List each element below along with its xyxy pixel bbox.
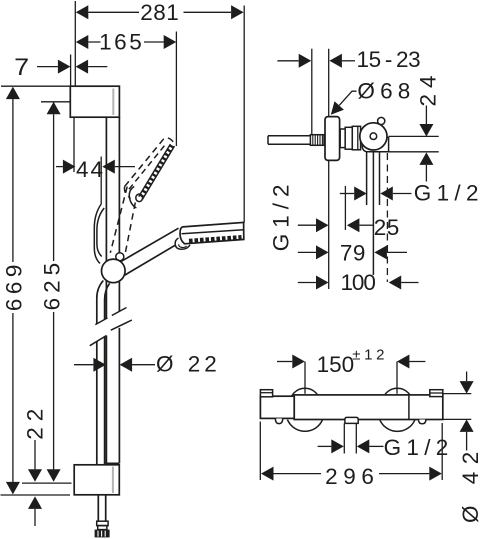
dimension 165 right arrow — [164, 35, 177, 49]
dimension 44 right arrow — [102, 160, 115, 174]
wall arrow row 25 — [298, 224, 316, 226]
upper position hose left edge — [94, 204, 101, 264]
hose conical nut — [95, 530, 110, 538]
dimension 625 bottom arrow — [47, 469, 61, 482]
dimension Ø42 line lower — [466, 432, 468, 451]
dimension Ø42 up arrow — [460, 419, 474, 432]
rail bar right edge — [118, 117, 120, 463]
dimension 15-23 line left — [277, 60, 298, 62]
outlet left edge — [366, 152, 368, 205]
dimension 79 line — [387, 251, 407, 253]
dimension 7 line left — [37, 66, 58, 68]
svg-text:25: 25 — [374, 215, 400, 240]
dimension 625 top arrow — [47, 102, 61, 115]
bottom bracket step — [107, 463, 120, 465]
dimension 24 line upper — [425, 106, 427, 125]
dimension 44 line left — [56, 166, 63, 168]
hand shower head body — [180, 222, 244, 243]
slider ball joint nub — [116, 253, 124, 261]
extension line body right — [441, 423, 443, 480]
dimension 165 line — [88, 41, 164, 43]
dimension 281 line — [88, 11, 231, 13]
wall arrow row 79 — [298, 251, 316, 253]
dimension G1/2 bottom left arrow — [331, 439, 344, 453]
extension line y=86 top of bracket — [1, 85, 70, 87]
rail bar left edge — [105, 117, 107, 464]
Ø42 top ref line — [443, 393, 472, 395]
dimension 625 line — [53, 114, 55, 469]
dimension G1/2 outlet line left — [340, 193, 354, 195]
svg-text:625: 625 — [39, 258, 64, 311]
dimension 281 left arrow — [76, 5, 89, 19]
left boss bottom arc — [287, 420, 322, 432]
dimension 669 bottom arrow — [6, 482, 20, 495]
right handle joint line — [408, 395, 410, 420]
dimension 44 line right — [115, 166, 135, 168]
dimension 44 ext line x=101.2 — [100, 157, 102, 205]
left wall union — [260, 390, 272, 397]
dimension 150 line right — [409, 361, 425, 363]
svg-text:±12: ±12 — [352, 346, 388, 363]
supply pipe thread — [310, 135, 324, 146]
dimension 100 arrow — [389, 276, 402, 290]
wall bracket top shading — [112, 89, 114, 116]
hand shower handle — [122, 229, 182, 275]
Ø42 bottom ref line — [443, 418, 472, 420]
bottom bracket shading — [112, 467, 114, 494]
extension line x=345.4 — [344, 186, 346, 230]
wall line front x=328.7 — [328, 49, 330, 289]
wall bracket top — [70, 86, 119, 117]
extension line x=244.2 — [243, 6, 245, 223]
dimension 25 line — [359, 224, 373, 226]
dimension 7 left arrow — [58, 60, 71, 74]
valve bottom ref line y=151.8 — [389, 151, 439, 153]
svg-text:79: 79 — [340, 241, 366, 266]
dimension 100 line — [401, 282, 418, 284]
right boss top circle — [382, 388, 412, 418]
dimension 44 ext line x=74 — [73, 117, 75, 172]
left handle — [260, 396, 294, 418]
connector nut — [345, 127, 352, 149]
shower holder clamp outline — [129, 187, 136, 209]
valve lower body — [362, 135, 389, 152]
right boss bottom arc — [380, 420, 415, 432]
outlet center line — [372, 152, 374, 275]
dimension 669 line — [12, 99, 14, 482]
dimension 150 right arrow — [397, 355, 410, 369]
extension line x=176.4 — [175, 32, 177, 147]
extension dashed x=387.4 — [386, 153, 388, 282]
dimension 15-23 left arrow — [299, 54, 312, 68]
extension line wall x=75.3 — [74, 1, 76, 86]
svg-text:669: 669 — [1, 260, 26, 311]
thermostat body tube — [294, 395, 443, 420]
escutcheon Ø68 side profile — [325, 117, 340, 161]
svg-text:G1/2: G1/2 — [414, 181, 481, 206]
dimension 25 arrow — [347, 218, 360, 232]
hand shower lower-left button — [175, 238, 190, 249]
dimension 296 line right — [379, 473, 429, 475]
dimension G1/2 outlet right arrow — [380, 187, 393, 201]
wall line rear x=311.8 — [311, 49, 313, 136]
dimension 296 line left — [274, 473, 322, 475]
dimension 22 lower arrow — [28, 496, 42, 509]
hose upper curve — [97, 281, 110, 465]
dimension 22 line upper — [34, 440, 36, 469]
wall arrow row 100 — [298, 282, 316, 284]
svg-text:100: 100 — [341, 270, 376, 295]
extension line body left — [259, 422, 261, 481]
dashed hand shower spray face teeth — [140, 145, 172, 198]
svg-text:7: 7 — [14, 54, 29, 81]
hand shower head mid line — [182, 230, 244, 234]
outlet right edge — [379, 152, 381, 205]
dimension 24 up arrow — [419, 152, 433, 165]
hose below bracket — [98, 495, 105, 521]
extension line y=483 — [22, 482, 72, 484]
extension line y=101.8 (625 top ref) — [41, 101, 70, 103]
dimension Ø22 line left — [74, 364, 93, 366]
svg-text:G1/2: G1/2 — [269, 179, 294, 252]
svg-text:G1/2: G1/2 — [384, 435, 454, 460]
break mark upper slash — [95, 308, 126, 325]
hose outlet nub — [345, 417, 358, 423]
dimension 15-23 right arrow — [329, 54, 342, 68]
dimension 7 right arrow — [76, 60, 89, 74]
dimension 150 line left — [277, 361, 292, 363]
dimension 24 down arrow — [419, 124, 433, 137]
left boss top circle — [290, 388, 320, 418]
dimension Ø42 line upper — [466, 372, 468, 382]
dimension 15-23 line right — [342, 60, 355, 62]
hand shower button inner line — [179, 244, 187, 247]
Ø68 leader arrow — [331, 101, 344, 115]
dimension 79 arrow — [374, 245, 387, 259]
dashed hand shower face inner edge — [139, 144, 171, 197]
dimension Ø22 right arrow — [120, 358, 133, 372]
right drain bump — [419, 420, 426, 424]
supply pipe — [268, 136, 310, 145]
connector ring — [352, 126, 360, 150]
break mark lower slash — [90, 320, 132, 346]
hand shower spray face teeth — [189, 237, 242, 241]
hose collar mid — [98, 526, 107, 530]
dimension 165 left arrow — [76, 35, 89, 49]
dimension 44 left arrow — [63, 160, 76, 174]
dimension G1/2 bottom line right — [369, 445, 383, 447]
dashed hand shower head outline — [124, 138, 174, 199]
slider ball joint — [102, 259, 126, 283]
svg-text:Ø68: Ø68 — [357, 78, 415, 103]
valve center ref line y=136.4 — [389, 135, 439, 137]
svg-text:165: 165 — [99, 29, 144, 54]
dimension 150 left arrow — [292, 355, 305, 369]
dimension Ø22 line right — [132, 364, 155, 366]
svg-text:22: 22 — [22, 403, 47, 440]
G1/2 extension lines — [344, 423, 356, 453]
hand shower handle bottom edge — [125, 241, 182, 275]
extension line left boss center — [304, 362, 306, 394]
svg-text:150: 150 — [317, 352, 355, 377]
connector sleeve — [340, 129, 345, 148]
svg-text:15 - 23: 15 - 23 — [357, 47, 421, 72]
svg-text:24: 24 — [415, 69, 440, 106]
left drain bump — [275, 419, 282, 424]
dimension 669 top arrow — [6, 87, 20, 100]
dimension Ø22 left arrow — [93, 358, 106, 372]
dimension 24 line lower — [425, 165, 427, 182]
upper position hose right edge — [97, 208, 104, 257]
valve handle nub — [378, 117, 385, 124]
hose collar ring — [97, 521, 108, 525]
dashed hand shower face outer edge — [142, 146, 174, 199]
valve center screw — [370, 133, 377, 140]
right wall union — [430, 390, 443, 397]
dimension 296 left arrow — [261, 467, 274, 481]
dimension 296 right arrow — [429, 467, 442, 481]
dimension G1/2 outlet line right — [393, 193, 412, 195]
dimension G1/2 bottom line left — [318, 445, 332, 447]
shower holder clamp hole — [136, 194, 143, 202]
svg-text:Ø 22: Ø 22 — [156, 352, 221, 377]
svg-text:281: 281 — [140, 0, 179, 25]
dashed hand shower (upper position) handle — [110, 187, 135, 255]
Ø68 leader line — [339, 91, 356, 105]
dimension 22 upper arrow — [28, 469, 42, 482]
dashed hand shower head inner line — [129, 143, 166, 189]
dimension 281 right arrow — [231, 5, 244, 19]
hand shower handle top edge — [121, 228, 178, 261]
valve body circle — [360, 123, 387, 150]
extension line bracket-left x=70.6 — [70, 55, 72, 87]
dimension 7 line right — [88, 66, 107, 68]
dimension 22 line lower — [34, 509, 36, 526]
dimension G1/2 outlet left arrow — [354, 187, 367, 201]
bottom bracket — [74, 465, 119, 495]
svg-text:296: 296 — [325, 464, 379, 489]
extension line right boss center — [396, 362, 398, 394]
extension line y=495 bottom — [1, 494, 71, 496]
dimension G1/2 bottom right arrow — [357, 439, 370, 453]
dimension Ø42 down arrow — [460, 381, 474, 394]
svg-text:Ø 42: Ø 42 — [458, 444, 481, 523]
